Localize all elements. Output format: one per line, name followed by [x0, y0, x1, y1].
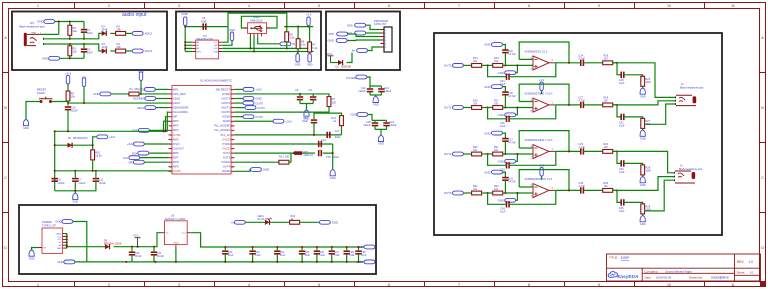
svg-text:x10uF: x10uF — [99, 181, 107, 185]
svg-text:x4.7uF: x4.7uF — [508, 180, 516, 183]
svg-text:10k: 10k — [73, 50, 78, 54]
svg-text:PVDD: PVDD — [223, 142, 231, 146]
svg-text:+3v3: +3v3 — [356, 245, 363, 249]
svg-text:6: 6 — [388, 283, 390, 287]
svg-text:SH: SH — [43, 248, 46, 250]
svg-text:MP3: MP3 — [173, 128, 179, 132]
svg-text:33uF: 33uF — [335, 135, 341, 139]
svg-text:x1uF: x1uF — [619, 82, 625, 85]
GND port — [328, 39, 348, 43]
capacitor C10 — [67, 103, 69, 105]
svg-text:GND: GND — [255, 97, 261, 101]
feedback top loop wire — [519, 131, 569, 152]
svg-text:x1uF: x1uF — [255, 254, 261, 257]
svg-text:x33uF: x33uF — [389, 123, 397, 127]
svg-text:OUT2: OUT2 — [444, 152, 452, 156]
resistor R13 — [290, 220, 300, 224]
header connector P1 — [384, 27, 392, 52]
resistor R19 output — [603, 103, 613, 107]
svg-text:VOUT1: VOUT1 — [221, 106, 230, 110]
capacitor C27 — [502, 139, 508, 142]
resistor R15 — [493, 64, 503, 68]
usb pin wires down — [250, 36, 280, 51]
wire — [463, 64, 471, 66]
svg-text:x4.7uF: x4.7uF — [508, 141, 516, 144]
svg-text:37: 37 — [232, 139, 234, 141]
svg-text:18: 18 — [170, 167, 172, 169]
capacitor C35 output coupling — [581, 187, 584, 193]
svg-text:VCC: VCC — [213, 42, 218, 44]
ground — [72, 193, 78, 203]
svg-text:ADC_RES: ADC_RES — [173, 92, 186, 96]
svg-text:C15: C15 — [326, 155, 331, 159]
svg-text:34: 34 — [232, 153, 234, 155]
svg-text:2: 2 — [171, 94, 172, 96]
bottom GND port — [57, 260, 75, 264]
svg-text:TITLE:: TITLE: — [609, 256, 618, 260]
resistor R16 — [472, 106, 482, 110]
svg-text:C17: C17 — [335, 129, 340, 133]
svg-text:GND: GND — [57, 248, 62, 250]
capacitor C25 — [502, 92, 508, 95]
svg-text:JP1: JP1 — [30, 22, 35, 25]
resistor R5 — [286, 27, 288, 32]
+3v3 long stub row8 — [235, 120, 274, 122]
svg-text:GND: GND — [484, 131, 490, 135]
svg-text:18.2k: 18.2k — [95, 154, 102, 158]
stage 1 input port OUT0 — [444, 64, 463, 68]
resistor R10 — [91, 150, 95, 160]
svg-text:CC1: CC1 — [57, 236, 62, 238]
svg-text:10k: 10k — [71, 95, 76, 99]
ferrite bead FB1 — [294, 151, 302, 155]
junction — [67, 102, 69, 104]
svg-text:10uF: 10uF — [87, 51, 93, 55]
wire — [482, 153, 493, 155]
wire — [482, 64, 493, 66]
svg-text:GND: GND — [93, 92, 99, 96]
power flag +3.3 — [539, 164, 545, 176]
svg-text:GND: GND — [484, 170, 490, 174]
svg-text:5: 5 — [318, 283, 320, 287]
net port row16 — [123, 156, 140, 160]
capacitor C22 — [224, 247, 226, 250]
svg-text:+3v3: +3v3 — [65, 72, 72, 76]
svg-text:10uF: 10uF — [87, 31, 93, 35]
shunt RC to ground — [613, 190, 622, 202]
svg-text:31: 31 — [232, 167, 234, 169]
svg-text:GND: GND — [351, 113, 357, 117]
power flag +3.3 — [539, 78, 545, 90]
stage 4 input port OUT3 — [444, 191, 463, 195]
svg-text:DM: DM — [58, 245, 62, 247]
svg-text:41: 41 — [232, 121, 234, 123]
svg-text:OUT3: OUT3 — [223, 156, 231, 160]
svg-text:REV:: REV: — [737, 260, 744, 264]
svg-text:B5819W_DS08: B5819W_DS08 — [104, 242, 122, 245]
svg-text:WP: WP — [173, 115, 178, 119]
resistor R25 output — [603, 189, 613, 193]
DGND port bottom right — [235, 170, 251, 172]
headphone jack J2 — [676, 83, 705, 106]
svg-text:OUT1: OUT1 — [444, 106, 452, 110]
svg-text:+3v3: +3v3 — [285, 119, 292, 123]
svg-text:ID: ID — [292, 42, 295, 46]
capacitor C27 output coupling — [581, 102, 584, 108]
svg-text:Date:: Date: — [645, 275, 652, 279]
svg-text:1: 1 — [37, 4, 39, 8]
svg-text:PLL_LF: PLL_LF — [221, 133, 231, 137]
svg-text:DVDD: DVDD — [173, 169, 181, 173]
svg-text:4.7uF: 4.7uF — [579, 146, 586, 149]
svg-text:9: 9 — [598, 283, 600, 287]
ground rail under caps — [55, 191, 97, 193]
capacitor C1 — [83, 22, 85, 29]
B+ port — [352, 49, 368, 53]
svg-text:SCL/ADDR1: SCL/ADDR1 — [173, 110, 189, 114]
svg-text:6: 6 — [171, 112, 172, 114]
capacitor C13 — [380, 86, 382, 88]
svg-text:x33uF: x33uF — [358, 89, 366, 93]
svg-text:40: 40 — [232, 126, 234, 128]
capacitor C6 — [52, 179, 58, 182]
shield to ground — [32, 248, 39, 251]
ground rail — [75, 261, 364, 263]
svg-text:2020-06-05: 2020-06-05 — [656, 275, 672, 279]
ID port — [280, 42, 295, 46]
shunt RC to ground — [613, 105, 622, 117]
row ticks left/right — [3, 73, 766, 213]
wire gnd rail — [43, 22, 84, 35]
svg-text:MP2: MP2 — [173, 124, 179, 128]
svg-text:DGND: DGND — [222, 169, 230, 173]
svg-text:VSS: VSS — [197, 51, 202, 53]
svg-text:11: 11 — [731, 283, 735, 287]
svg-text:4: 4 — [171, 103, 172, 105]
svg-text:x1uF: x1uF — [305, 254, 311, 257]
svg-text:4148: 4148 — [102, 45, 108, 49]
feedback bottom wire + capacitor C28 — [488, 154, 507, 165]
svg-text:15: 15 — [170, 153, 172, 155]
svg-text:AS358AMZ-RE31.7 U1.4: AS358AMZ-RE31.7 U1.4 — [525, 93, 554, 96]
svg-text:100: 100 — [332, 100, 337, 104]
+3.3 power flag — [306, 12, 312, 25]
wire — [67, 84, 69, 91]
svg-text:43: 43 — [232, 112, 234, 114]
svg-text:10: 10 — [667, 283, 671, 287]
PLL loop filter — [235, 126, 342, 135]
svg-text:FILTER: FILTER — [347, 76, 356, 80]
WP pin wire to GND flag — [222, 41, 232, 46]
capacitor C24 output coupling — [581, 60, 584, 66]
headphone jack J3 — [675, 164, 704, 183]
resistor R21 — [493, 152, 503, 156]
resistor R4 — [116, 49, 126, 53]
svg-text:Black headphone jack: Black headphone jack — [19, 24, 45, 28]
GND port above cap — [484, 85, 502, 89]
feedback bottom wire + capacitor C23 — [488, 65, 507, 76]
pin bus wires — [65, 234, 105, 249]
svg-text:4.7uF: 4.7uF — [579, 100, 586, 103]
diode D2 — [338, 60, 343, 65]
svg-text:AS358AMZ1PE017 U1.3: AS358AMZ1PE017 U1.3 — [525, 178, 553, 181]
svg-text:10: 10 — [170, 130, 172, 132]
net port right row1 — [235, 88, 244, 90]
op-amp triangle U1.4 — [533, 184, 549, 198]
SDA bus — [222, 51, 313, 53]
wire row2 — [44, 44, 102, 51]
svg-text:Sheet:: Sheet: — [737, 271, 746, 275]
svg-text:+3v3: +3v3 — [255, 88, 262, 92]
capacitor C36 — [621, 199, 624, 205]
resistor R6 — [297, 27, 299, 39]
svg-text:DVDD: DVDD — [222, 92, 230, 96]
GND port above cap — [484, 131, 502, 135]
svg-text:Company:: Company: — [645, 269, 659, 273]
svg-text:8: 8 — [528, 4, 530, 8]
svg-text:C: C — [4, 176, 7, 180]
net ports right rows — [235, 98, 244, 100]
capacitor C25 — [301, 247, 303, 250]
svg-text:12: 12 — [170, 139, 172, 141]
svg-text:SELFBOOT: SELFBOOT — [216, 87, 231, 91]
svg-text:MP5: MP5 — [173, 137, 179, 141]
svg-text:10k: 10k — [73, 29, 78, 33]
resistor R29 — [641, 204, 645, 214]
capacitor C30 — [621, 72, 624, 78]
svg-text:x10uF: x10uF — [157, 255, 164, 258]
svg-text:4.7uF: 4.7uF — [579, 58, 586, 61]
capacitor C20 — [131, 247, 133, 252]
svg-text:1.5k: 1.5k — [290, 36, 296, 40]
power flag Vcc at x84 — [82, 75, 87, 87]
svg-text:MP6: MP6 — [173, 151, 179, 155]
svg-text:GND: GND — [174, 243, 179, 245]
SDA port — [347, 23, 366, 27]
capacitor C26 — [316, 247, 318, 250]
power flag +3v3 (tall, at x141) — [138, 70, 145, 81]
svg-text:OUT0: OUT0 — [255, 101, 263, 105]
svg-text:x1uF: x1uF — [619, 210, 625, 213]
ground — [640, 177, 646, 187]
svg-text:U5: U5 — [171, 214, 175, 218]
svg-text:7: 7 — [171, 117, 172, 119]
LED circuit — [231, 220, 246, 224]
svg-text:x10uF: x10uF — [71, 109, 79, 113]
IC U2 pin numbers — [170, 89, 234, 173]
svg-text:5.1k: 5.1k — [312, 46, 318, 50]
op-amp triangle U1.2 — [533, 98, 549, 112]
svg-text:OUT2: OUT2 — [255, 115, 263, 119]
GND port above cap — [484, 43, 502, 47]
regulator output wire — [191, 233, 364, 247]
feedback bottom wire + capacitor C34 — [488, 193, 507, 204]
svg-text:x1uF: x1uF — [500, 125, 506, 128]
svg-text:+3.3: +3.3 — [306, 12, 312, 16]
resistor R28 — [641, 165, 645, 175]
svg-text:Po: Po — [130, 87, 134, 91]
svg-text:DP: DP — [59, 242, 63, 244]
svg-text:ADCRES: ADCRES — [133, 97, 145, 101]
svg-text:x4.7uF: x4.7uF — [508, 95, 516, 98]
svg-text:9: 9 — [171, 126, 172, 128]
svg-text:35: 35 — [232, 149, 234, 151]
capacitor C2 — [83, 44, 85, 48]
svg-text:AS358AMZ-E1 U1.2: AS358AMZ-E1 U1.2 — [525, 51, 548, 54]
IC left pin wires — [192, 42, 222, 51]
svg-text:4148: 4148 — [102, 28, 108, 32]
ADC3 port — [132, 49, 152, 53]
IC U2 pin names right — [214, 87, 230, 173]
svg-text:C: C — [761, 176, 764, 180]
rail — [185, 27, 228, 52]
svg-text:3: 3 — [178, 4, 180, 8]
svg-text:GND: GND — [498, 113, 504, 117]
GND port top — [37, 20, 55, 24]
svg-text:20k: 20k — [117, 45, 122, 49]
wires around switch — [34, 101, 69, 103]
svg-text:100: 100 — [285, 155, 290, 159]
svg-text:42: 42 — [232, 117, 234, 119]
svg-text:Drawn By:: Drawn By: — [689, 275, 703, 279]
GND net port cluster 2 — [351, 113, 368, 117]
op-amp triangle U1.1 — [533, 56, 549, 70]
svg-text:VOUT2: VOUT2 — [221, 101, 230, 105]
feedback bottom wire + capacitor C26 — [488, 108, 507, 119]
GND port above cap — [484, 170, 502, 174]
svg-text:7: 7 — [458, 4, 460, 8]
capacitor C24 — [276, 247, 278, 250]
svg-text:9: 9 — [598, 4, 600, 8]
svg-text:19: 19 — [170, 171, 172, 173]
svg-text:DVDD: DVDD — [173, 133, 181, 137]
svg-text:B+: B+ — [352, 49, 356, 53]
svg-text:POWER: POWER — [42, 220, 52, 224]
capacitor C12 — [369, 86, 371, 88]
shunt RC to ground — [613, 151, 622, 163]
svg-text:EasyEDA: EasyEDA — [617, 274, 639, 280]
svg-text:SDA: SDA — [132, 151, 138, 155]
svg-text:GND: GND — [328, 39, 334, 43]
GND port to pin1 — [138, 88, 156, 92]
svg-text:6-PIN JST: 6-PIN JST — [374, 22, 387, 26]
FILTER net port — [347, 75, 367, 80]
svg-text:x1uF: x1uF — [619, 171, 625, 174]
resistor R23 — [493, 191, 503, 195]
svg-text:ADC0: ADC0 — [173, 96, 181, 100]
shunt RC to ground — [613, 63, 622, 75]
svg-text:USB-2C20: USB-2C20 — [250, 18, 263, 22]
svg-text:GND: GND — [181, 12, 187, 16]
wire to op-amp — [503, 107, 533, 109]
svg-text:5: 5 — [318, 4, 320, 8]
svg-text:3: 3 — [171, 99, 172, 101]
resistor R3 — [116, 32, 126, 36]
power box — [19, 205, 376, 274]
svg-text:C8: C8 — [295, 88, 299, 92]
feedback top loop wire — [519, 84, 569, 105]
svg-text:Black headphone jack: Black headphone jack — [680, 87, 704, 90]
svg-text:x1uF: x1uF — [500, 211, 506, 214]
svg-text:GND: GND — [498, 160, 504, 164]
svg-text:ADC1: ADC1 — [173, 101, 181, 105]
ground — [23, 120, 29, 130]
resistor R9 — [66, 91, 70, 101]
svg-text:MP1: MP1 — [173, 87, 179, 91]
svg-text:20k: 20k — [117, 28, 122, 32]
svg-text:B5819W: B5819W — [342, 65, 352, 68]
capacitor C9 — [312, 94, 314, 96]
svg-text:AGND: AGND — [222, 115, 230, 119]
svg-text:+3v3: +3v3 — [127, 142, 134, 146]
svg-text:17: 17 — [170, 162, 172, 164]
svg-text:VBUS: VBUS — [56, 233, 62, 235]
resistor R8 — [129, 92, 139, 96]
svg-text:VOUT0: VOUT0 — [221, 110, 230, 114]
GND flag top left — [181, 12, 187, 26]
capacitor C19 — [386, 120, 388, 122]
svg-text:5.1k: 5.1k — [301, 43, 307, 47]
amplifier box — [434, 33, 722, 235]
resistor R7 — [309, 27, 310, 42]
svg-text:OUT3: OUT3 — [444, 191, 452, 195]
ground — [373, 96, 379, 106]
svg-text:7: 7 — [458, 283, 460, 287]
svg-text:VCC: VCC — [133, 234, 139, 238]
svg-text:GND: GND — [42, 57, 48, 61]
column ticks top — [75, 3, 705, 9]
inner wire loop — [241, 16, 277, 28]
svg-text:GND: GND — [498, 71, 504, 75]
svg-text:x33uF: x33uF — [363, 123, 371, 127]
svg-text:audio input: audio input — [122, 12, 147, 18]
capacitor C17 on PLL row — [327, 132, 330, 138]
ADC1 port — [132, 32, 152, 36]
svg-text:8: 8 — [171, 121, 172, 123]
eeprom/usb box — [176, 12, 321, 71]
svg-text:DSP: DSP — [621, 255, 630, 260]
lower filter cluster — [235, 143, 333, 145]
svg-text:1: 1 — [37, 283, 39, 287]
svg-text:D: D — [761, 246, 764, 250]
wire row2 to decoupling caps — [235, 93, 314, 95]
svg-text:2: 2 — [108, 4, 110, 8]
svg-text:SDA: SDA — [347, 23, 353, 27]
svg-text:DVDD: DVDD — [222, 137, 230, 141]
net port row5 — [137, 106, 156, 110]
resistor R1 — [69, 22, 71, 26]
svg-text:33: 33 — [232, 158, 234, 160]
output stub — [549, 150, 556, 152]
svg-text:x10uF: x10uF — [135, 255, 142, 258]
svg-text:U2 ADAU1401AWBSTZ: U2 ADAU1401AWBSTZ — [200, 78, 232, 82]
svg-text:GND: GND — [484, 85, 490, 89]
resistor R2 — [69, 44, 71, 46]
svg-text:OUT2: OUT2 — [223, 151, 231, 155]
ground flags bottom — [295, 54, 301, 67]
capacitor C7 — [74, 171, 76, 178]
resistor R27 — [641, 118, 645, 128]
svg-text:x1uF: x1uF — [619, 124, 625, 127]
svg-text:+3v3: +3v3 — [109, 135, 116, 139]
wire — [139, 93, 169, 95]
capacitor C8 — [299, 94, 301, 96]
VCC pin wire up to rail — [222, 27, 228, 43]
net port +3v3 near zener — [97, 135, 115, 139]
svg-text:100: 100 — [604, 146, 609, 149]
placeholder sections — [19, 12, 152, 61]
wire jack J3 sleeve to gnd — [645, 180, 675, 211]
